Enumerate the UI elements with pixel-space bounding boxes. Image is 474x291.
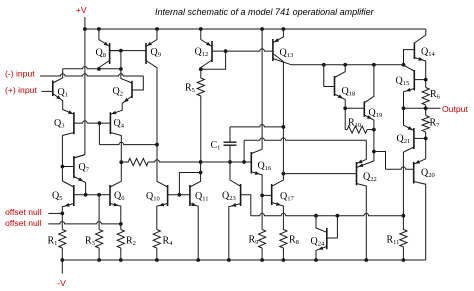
junction dot Q8/Q9 base <box>119 49 123 53</box>
junction dot Q19 base <box>343 106 347 110</box>
transistor Q10 <box>157 185 168 230</box>
junction dot Q22 emitter node <box>372 150 376 154</box>
resistor R1 <box>59 213 66 260</box>
label R5 <box>185 83 195 95</box>
label offset null upper <box>5 207 42 217</box>
wire Q12-Q13 bases <box>226 49 273 51</box>
label Q14 <box>421 47 435 59</box>
resistor R11 <box>400 216 407 260</box>
label Q12 <box>195 47 209 59</box>
title text <box>155 7 375 17</box>
junction dot Q12 base <box>224 49 228 53</box>
wire Q3 collector <box>62 133 74 182</box>
transistor Q3 <box>73 112 75 134</box>
resistor R3 <box>96 230 103 261</box>
label R7 <box>430 118 441 130</box>
junction dots on Q5/Q6 base wire <box>84 193 101 197</box>
svg-text:(+) input: (+) input <box>5 85 37 95</box>
transistor Q14 <box>404 29 426 80</box>
transistor Q21 <box>403 108 425 215</box>
label Q11 <box>195 191 209 203</box>
label Q7 <box>79 162 90 174</box>
svg-text:(-) input: (-) input <box>5 69 35 79</box>
wire V2 Q13 collector 1 down <box>282 62 284 174</box>
junction dots on Q23 base net <box>314 214 405 218</box>
wire Q5-Q6 bases <box>74 194 110 196</box>
transistor Q22 <box>283 152 374 261</box>
transistor Q24 <box>316 216 337 260</box>
label Q6 <box>114 191 125 203</box>
junction dot Q12 collector <box>199 67 203 71</box>
junction dot offset null 2 <box>119 222 123 226</box>
label Q4 <box>114 118 125 130</box>
wire Q9 collector to Q10 <box>157 69 168 187</box>
wire +V to Q16 collector <box>251 29 262 154</box>
label R4 <box>163 236 174 248</box>
transistor Q4 <box>109 112 111 134</box>
label Q5 <box>52 191 62 203</box>
transistor Q20 <box>414 138 426 260</box>
wire (-) input to Q2 base <box>40 74 143 90</box>
transistor Q1 <box>53 81 74 115</box>
label Q8 <box>96 48 106 60</box>
label -V <box>57 278 66 288</box>
resistor R6 <box>422 80 429 109</box>
wire Q1 collector net <box>53 67 121 83</box>
label Q19 <box>369 108 383 120</box>
junction dots on Q1 collector net <box>97 67 123 71</box>
junction dot bias to Q9 collector line <box>155 143 159 147</box>
junction dot offset null 1 <box>60 212 64 216</box>
wire C1 top H1 <box>230 125 283 127</box>
label Q15 <box>396 76 410 88</box>
wire second stage base net <box>148 160 251 162</box>
label offset null lower <box>5 218 42 228</box>
transistor Q18 <box>324 65 345 109</box>
wire mirror to Q2 collector <box>121 69 132 83</box>
junction dot compensation resistor <box>119 160 123 164</box>
label Q1 <box>58 87 68 99</box>
junction dots output <box>402 106 428 110</box>
label R8 <box>289 235 299 247</box>
wire (+) input to Q1 base <box>42 90 53 92</box>
label R3 <box>85 236 95 248</box>
transistor Q7 <box>62 155 85 195</box>
resistor R9 <box>259 195 266 260</box>
wire offset null 1 <box>48 212 62 214</box>
svg-text:-V: -V <box>57 278 66 288</box>
wire Q8-Q9 bases <box>110 51 146 69</box>
label Output <box>442 104 468 114</box>
svg-text:Internal schematic of a model: Internal schematic of a model 741 operat… <box>155 7 375 17</box>
compensation resistor unlabeled <box>121 158 148 165</box>
label Q24 <box>311 236 325 248</box>
label (-) input <box>5 69 35 79</box>
transistor Q6 <box>110 181 121 224</box>
wire Q4 collector <box>110 133 121 182</box>
label Q13 <box>280 48 294 60</box>
label Q10 <box>146 191 160 203</box>
label Q18 <box>342 86 356 98</box>
wire base junction to R3 <box>98 195 100 230</box>
label Q2 <box>113 86 123 98</box>
label +V <box>76 5 87 15</box>
wire base elbow to Q11 collector <box>179 162 200 195</box>
transistor Q15 <box>404 65 426 108</box>
junction dot Q21 base <box>424 137 428 141</box>
label R10 <box>348 118 361 130</box>
wire Q3-Q4 bases <box>74 121 111 123</box>
junction dot Q10/Q11 base <box>178 193 182 197</box>
wire output <box>404 107 441 109</box>
label (+) input <box>5 85 37 95</box>
wire Q23 base net <box>251 213 404 215</box>
label Q22 <box>363 172 377 184</box>
junction dots on base net <box>199 160 246 164</box>
wire Q22 node to Q20 base <box>374 152 414 170</box>
label Q17 <box>280 191 294 203</box>
label R11 <box>387 235 400 247</box>
junction dots on -V rail <box>60 258 405 262</box>
wire Q13 collector 2 to Q14 base <box>292 64 404 66</box>
label R1 <box>48 236 58 248</box>
wire offset null 2 <box>48 222 121 224</box>
+V supply stub <box>84 17 86 29</box>
junction dots on Q13c2 wire <box>322 63 406 67</box>
transistor Q17 <box>262 174 283 230</box>
label C1 <box>211 140 221 152</box>
junction dot C1 top on V2 <box>282 125 286 129</box>
label Q3 <box>54 118 64 130</box>
transistor Q8 <box>99 29 121 69</box>
junction dot Q22 base on V2 <box>282 172 286 176</box>
label Q16 <box>258 161 272 173</box>
transistor Q5 <box>62 181 74 213</box>
label Q23 <box>222 191 236 203</box>
junction dot Q17 base <box>260 194 264 198</box>
resistor R5 <box>197 69 204 162</box>
wire +V to Q7 collector <box>74 29 85 158</box>
wire H2 to Q22 emitter 2 <box>244 138 366 164</box>
wire +V rail <box>85 28 426 30</box>
label R9 <box>249 235 259 247</box>
resistor R7 <box>422 108 429 138</box>
resistor R8 <box>280 230 287 261</box>
label Q21 <box>397 134 411 146</box>
wire Q19 emitter node down <box>373 130 375 152</box>
junction dot R10 right <box>372 128 376 132</box>
junction dot Q15 base <box>424 78 428 82</box>
transistor Q11 <box>190 173 201 261</box>
junction dot Q3/Q4 base <box>98 121 102 125</box>
svg-text:offset null: offset null <box>5 218 42 228</box>
transistor Q16 <box>251 152 262 195</box>
-V supply stub <box>61 260 63 274</box>
transistor Q23 <box>229 162 251 260</box>
resistor R4 <box>153 230 160 261</box>
resistor R10 <box>345 108 374 133</box>
svg-text:+V: +V <box>76 5 87 15</box>
transistor Q2 <box>110 81 132 115</box>
svg-text:offset null: offset null <box>5 207 42 217</box>
junction dot Q7 base <box>61 165 65 169</box>
junction dots on +V rail <box>83 27 285 31</box>
wire Q3/Q4 base bias <box>99 123 157 145</box>
transistor Q19 <box>345 65 374 130</box>
transistor Q12 <box>201 29 226 69</box>
resistor R2 <box>117 224 124 260</box>
label R6 <box>430 89 441 101</box>
label Q9 <box>151 47 161 59</box>
transistor Q13 <box>273 29 292 65</box>
svg-text:Output: Output <box>442 104 468 114</box>
transistor Q9 <box>146 29 157 69</box>
wire -V rail <box>62 259 425 261</box>
junction dot Q11 collector elbow <box>199 171 203 175</box>
wire Q10-Q11 bases <box>168 194 190 196</box>
label R2 <box>126 236 136 248</box>
capacitor C1 <box>224 127 237 162</box>
label Q20 <box>421 168 435 180</box>
